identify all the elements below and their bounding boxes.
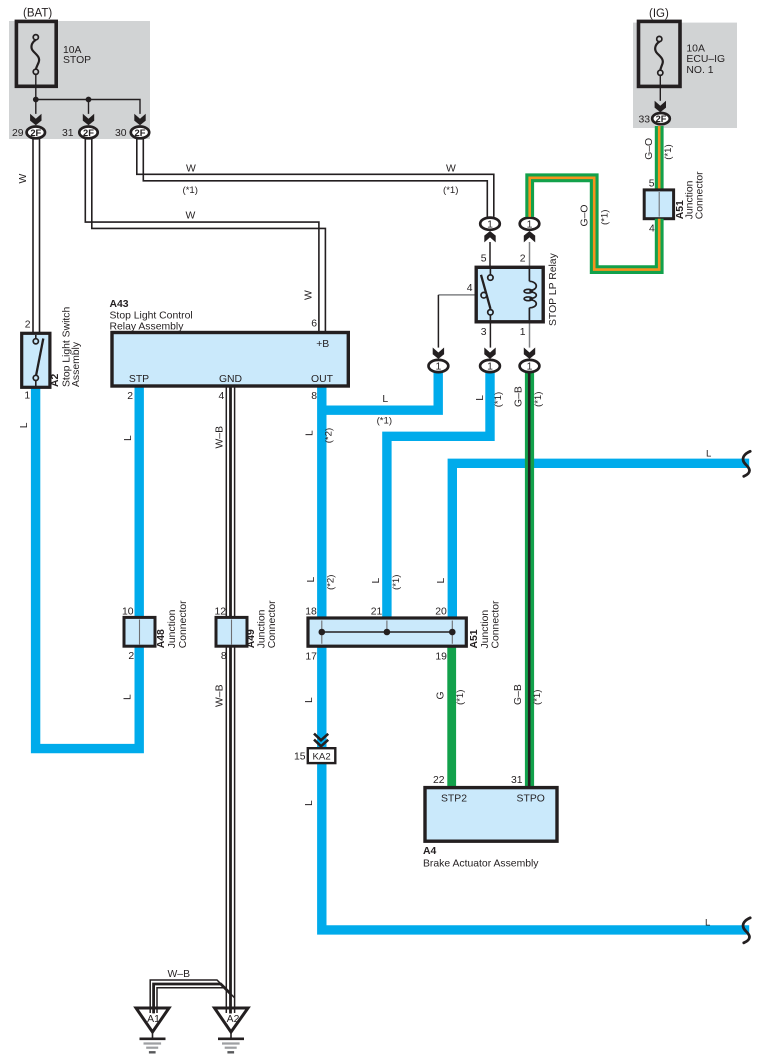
svg-text:W: W [186,163,196,174]
svg-text:Connector: Connector [695,171,706,219]
switch A2 Stop Light Switch Assembly [22,306,82,401]
svg-text:A48: A48 [156,629,167,648]
svg-text:OUT: OUT [311,374,334,385]
svg-text:L: L [304,697,315,703]
svg-text:G–O: G–O [644,138,655,160]
connector 1 above relay pin 2 [520,218,540,243]
wire W from pin 29 to stop light switch [18,139,40,334]
svg-text:G–B: G–B [514,386,525,407]
ground A2 [215,1007,249,1053]
wire L (*1) branch from OUT to relay pin 4 connector [323,369,438,427]
wire L (*1) from relay pin 3 to A51 pin 21 [371,369,504,618]
svg-text:(*1): (*1) [532,690,543,705]
wire fuse to pin 33 [659,75,661,100]
wire W (*1) from pin 30 to relay pin 5 [137,139,494,217]
svg-text:1: 1 [527,362,533,373]
wire relay pin 1 lead [529,322,531,348]
svg-text:2: 2 [128,651,134,662]
svg-text:(*1): (*1) [663,144,674,159]
off-page break lower L wire [743,918,750,943]
svg-text:L: L [436,578,447,584]
svg-text:8: 8 [221,651,227,662]
svg-text:G–O: G–O [580,205,591,227]
svg-text:G: G [436,691,447,699]
svg-text:STP2: STP2 [441,794,467,805]
connector 1 below relay pin 3 [480,348,500,373]
svg-text:(*1): (*1) [493,392,504,407]
connector 1 above relay pin 5 [480,218,500,243]
svg-text:22: 22 [433,775,445,786]
svg-text:A51: A51 [469,629,480,648]
svg-text:L: L [306,577,317,583]
svg-text:Assembly: Assembly [71,341,82,387]
svg-text:L: L [19,422,30,428]
svg-text:L: L [705,918,711,929]
wire fuse output bus [33,74,140,114]
wire G-O (*1) from A51 to relay pin 2 connector [530,178,660,270]
svg-text:4: 4 [467,283,473,294]
wire relay pin 4 lead [438,295,481,348]
svg-text:4: 4 [219,391,225,402]
svg-text:6: 6 [311,318,317,329]
svg-text:Junction: Junction [167,609,178,648]
svg-text:10: 10 [122,607,134,618]
svg-text:A4: A4 [423,846,437,857]
svg-text:(BAT): (BAT) [23,8,52,20]
svg-text:L: L [371,578,382,584]
svg-text:29: 29 [12,128,24,139]
svg-text:(*1): (*1) [443,185,458,196]
wire relay pin 5 lead [489,242,491,268]
svg-text:STPO: STPO [517,794,545,805]
svg-text:(*1): (*1) [533,392,544,407]
svg-text:19: 19 [435,651,447,662]
svg-text:33: 33 [638,114,650,125]
connector pin 30 2F [115,114,149,139]
svg-text:(*1): (*1) [455,690,466,705]
svg-text:L: L [475,395,486,401]
svg-text:1: 1 [520,327,526,338]
fuse block ground plane (IG) [633,23,737,128]
connector pin 31 2F [62,114,98,139]
junction connector A51 (small) [644,171,705,235]
svg-text:Junction: Junction [480,610,491,649]
off-page break upper L wire [743,451,750,476]
svg-text:STOP: STOP [63,55,91,66]
svg-text:W–B: W–B [168,969,191,980]
svg-text:Connector: Connector [490,600,501,648]
svg-text:8: 8 [311,391,317,402]
svg-text:(*2): (*2) [324,428,335,443]
svg-text:Brake Actuator Assembly: Brake Actuator Assembly [423,859,539,870]
actuator A4 Brake Actuator Assembly [423,775,557,870]
fuse 10A ECU-IG NO. 1 [639,21,726,86]
svg-text:2F: 2F [30,127,41,138]
wire G-O (*1) from pin 33 to A51 [644,126,674,190]
svg-text:W–B: W–B [214,684,225,707]
svg-text:L: L [123,435,134,441]
svg-text:Junction: Junction [256,609,267,648]
svg-text:(*1): (*1) [600,210,611,225]
wire relay pin 3 lead [489,322,491,348]
wire L from right edge to A51 pin 20 [436,448,749,617]
ground A1 [136,1007,169,1053]
fuse block ground plane (BAT) [9,21,150,139]
svg-text:21: 21 [371,607,383,618]
wire relay pin 2 lead [529,242,531,268]
wire L from A43 STP to A48 [123,387,139,618]
svg-text:STP: STP [129,374,149,385]
svg-text:15: 15 [294,751,306,762]
svg-text:L: L [304,800,315,806]
svg-text:30: 30 [115,128,127,139]
svg-text:W: W [186,210,196,221]
svg-text:W–B: W–B [214,426,225,449]
connector KA2 pin 15 [294,734,335,764]
svg-text:GND: GND [219,374,242,385]
svg-text:A2: A2 [50,373,61,387]
svg-text:5: 5 [481,254,487,265]
svg-text:ECU–IG: ECU–IG [686,54,725,65]
svg-text:Connector: Connector [178,600,189,648]
svg-text:W: W [446,163,456,174]
svg-text:L: L [305,430,316,436]
svg-text:2: 2 [25,319,31,330]
junction connector A51 (wide) [305,600,501,662]
svg-text:Relay Assembly: Relay Assembly [110,321,185,332]
svg-text:31: 31 [62,128,74,139]
svg-text:2F: 2F [83,127,94,138]
svg-text:A1: A1 [147,1014,160,1025]
svg-text:1: 1 [436,362,442,373]
svg-text:(*1): (*1) [377,415,392,426]
wire W from pin 31 to A43 +B [85,139,325,333]
svg-text:W: W [304,290,315,300]
svg-text:2F: 2F [656,114,667,124]
connector pin 29 2F [12,114,45,139]
junction connector A49 [214,600,278,662]
svg-text:(*1): (*1) [183,185,198,196]
ECU A43 Stop Light Control Relay Assembly [110,299,349,402]
svg-text:A2: A2 [227,1014,240,1025]
wire W-B from A43 GND to grounds [214,387,234,1009]
svg-text:NO. 1: NO. 1 [686,65,713,76]
svg-text:A49: A49 [246,629,257,648]
svg-text:G–B: G–B [513,684,524,705]
svg-text:(IG): (IG) [649,8,669,20]
svg-text:L: L [382,394,388,405]
wire G-B (*1) from relay pin 1 to A4 STPO [513,369,544,788]
svg-text:+B: +B [316,339,329,350]
svg-text:(*2): (*2) [326,575,337,590]
svg-text:A43: A43 [110,299,129,310]
svg-text:2: 2 [520,254,526,265]
wire L from stop light switch to A48 [19,387,139,749]
wire G (*1) from A51 pin 19 to A4 STP2 [436,646,467,788]
svg-text:(*1): (*1) [391,575,402,590]
svg-text:1: 1 [527,219,533,230]
junction connector A48 [122,600,189,662]
svg-text:STOP LP Relay: STOP LP Relay [548,252,559,326]
svg-text:20: 20 [435,607,447,618]
svg-text:L: L [706,448,712,459]
connector pin 33 2F [638,101,669,126]
svg-text:17: 17 [305,651,317,662]
svg-text:2: 2 [127,391,133,402]
svg-text:3: 3 [481,327,487,338]
connector 1 below relay pin 1 [520,348,540,373]
svg-text:31: 31 [511,775,523,786]
svg-text:10A: 10A [686,44,705,55]
svg-text:5: 5 [649,178,655,189]
svg-text:1: 1 [24,391,30,402]
svg-text:12: 12 [214,607,226,618]
connector 1 below relay pin 4 [429,348,449,373]
fuse 10A STOP [16,21,91,86]
svg-text:Stop Light Control: Stop Light Control [110,310,193,321]
relay U1 STOP LP Relay [467,252,559,338]
wire L (*2) from A43 OUT down through KA2 to right edge [304,387,749,930]
svg-text:Connector: Connector [267,600,278,648]
wire W-B branch to ground A1 [150,969,234,1009]
svg-text:18: 18 [305,607,317,618]
svg-text:W: W [18,174,29,184]
svg-text:2F: 2F [135,127,146,138]
svg-text:1: 1 [487,362,493,373]
svg-text:L: L [123,694,134,700]
svg-text:KA2: KA2 [313,751,331,762]
svg-text:1: 1 [487,219,493,230]
svg-text:4: 4 [649,224,655,235]
